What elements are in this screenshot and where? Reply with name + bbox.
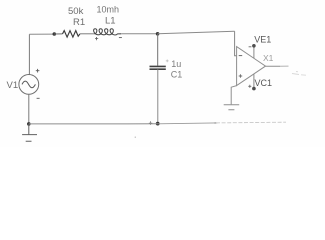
svg-text:VC1: VC1 [255,78,273,88]
node junction dot at C1 top [156,32,160,36]
faint scan smudge near output [292,72,306,76]
wire bottom ground rail (faded right part) [158,122,216,125]
L1 plus polarity mark [95,37,98,40]
wire top rail left (V1 top to R1) [29,33,54,35]
wire bottom ground rail (dark part) [29,123,158,125]
VE1 minus mark [249,46,252,48]
C1 bottom terminal plus mark [149,121,152,125]
ground symbol at op-amp [224,105,240,110]
source V1 circle [19,75,39,95]
svg-text:X1: X1 [263,53,274,63]
VC1 plus mark [248,85,251,88]
wire down into op-amp inverting input [235,31,237,56]
ground symbol at V1 [22,124,37,141]
wire L1 to C1 node [121,33,157,35]
wire op-amp plus input to ground [231,86,236,105]
svg-text:C1: C1 [171,70,183,80]
op-amp non-inverting input mark [239,74,243,77]
resistor R1 [63,31,81,37]
svg-text:L1: L1 [105,16,116,27]
svg-text:50k: 50k [68,6,84,17]
V1 minus polarity mark [37,97,40,99]
op-amp inverting input mark [239,55,243,57]
capacitor C1 plates [150,66,166,69]
node junction dot C1 at bottom rail [156,122,160,126]
wire between R1 and L1 [80,33,95,35]
svg-text:VE1: VE1 [254,35,271,45]
wire op-amp output [266,65,281,67]
capacitor C1 faint polarity mark [166,60,169,63]
capacitor C1 bottom lead [157,69,159,123]
wire V1 top lead [28,34,30,74]
svg-text:1u: 1u [171,59,181,69]
source V1 sine symbol [22,81,35,88]
inductor L1 [94,29,122,35]
V1 plus polarity mark [36,69,40,73]
wire R1 left lead [54,33,62,35]
node VC1 terminal dot [252,87,256,91]
node junction dot at V1 ground rail [27,122,31,126]
L1 minus polarity mark [119,37,122,39]
node VE1 terminal dot [252,44,256,48]
capacitor C1 top lead [157,34,159,66]
faint scan speck on bottom area [135,137,136,138]
svg-text:V1: V1 [7,80,19,91]
wire VC1 stub [253,74,255,88]
wire VE1 stub [253,46,255,58]
op-amp X1 triangle [237,47,266,86]
svg-text:10mh: 10mh [97,5,120,15]
svg-text:R1: R1 [73,17,85,28]
wire C1 node to op-amp corner (slight scan skew) [158,31,235,34]
node junction dot left of R1 [53,32,57,36]
wire V1 bottom lead [28,94,30,124]
